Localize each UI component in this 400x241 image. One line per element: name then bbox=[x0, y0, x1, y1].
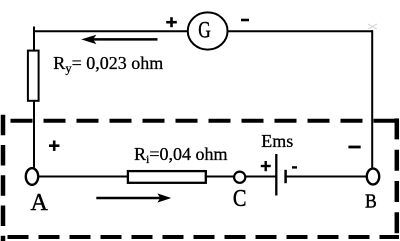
battery minus sign bbox=[292, 166, 297, 168]
resistor Ry bbox=[28, 51, 39, 101]
wire top horizontal right segment bbox=[227, 30, 373, 32]
svg-text:C: C bbox=[233, 184, 247, 211]
battery negative (short) plate bbox=[284, 170, 287, 183]
battery plus sign bbox=[261, 161, 271, 171]
plus sign left of galvanometer bbox=[166, 17, 177, 27]
plus sign above node A bbox=[49, 141, 59, 151]
wire top-left corner tick bbox=[33, 27, 35, 51]
minus sign above node B bbox=[348, 146, 360, 149]
node C terminal circle bbox=[234, 172, 245, 183]
dashed enclosure bottom border bbox=[1, 235, 399, 239]
dashed enclosure left border bbox=[1, 115, 6, 241]
galvanometer circle bbox=[188, 12, 228, 49]
svg-text:Ems: Ems bbox=[261, 131, 293, 151]
svg-text:A: A bbox=[31, 190, 49, 216]
wire resistor Ri to node C bbox=[206, 176, 235, 178]
faint artifact x mark at top-right corner bbox=[368, 24, 377, 29]
dashed enclosure right border bbox=[395, 118, 400, 241]
node A terminal circle bbox=[26, 168, 38, 185]
resistor Ri bbox=[128, 171, 206, 183]
node B terminal circle bbox=[367, 169, 379, 185]
minus sign right of galvanometer bbox=[241, 19, 249, 22]
battery positive (long) plate bbox=[275, 154, 277, 196]
wire node C to battery positive plate bbox=[245, 176, 275, 178]
wire left vertical from Ry down to node A bbox=[33, 101, 35, 169]
current arrow bottom (pointing right) bbox=[96, 193, 171, 202]
wire battery negative plate to node B bbox=[286, 176, 367, 178]
wire right vertical into box down to node B bbox=[371, 30, 373, 169]
dashed enclosure top border bbox=[1, 119, 399, 123]
current arrow top (pointing left) bbox=[81, 35, 157, 44]
wire top horizontal left segment bbox=[33, 30, 189, 32]
svg-text:G: G bbox=[198, 18, 211, 43]
wire node A to resistor Ri bbox=[39, 176, 129, 178]
svg-text:B: B bbox=[365, 190, 377, 213]
